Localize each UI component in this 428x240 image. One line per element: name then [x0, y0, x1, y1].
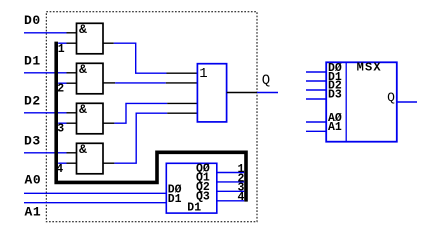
wire decoder Q0 to bus [217, 172, 244, 174]
svg-text:Q: Q [387, 90, 395, 105]
svg-text:4: 4 [56, 163, 63, 176]
svg-text:&: & [79, 102, 87, 117]
bus tap wire to U2 input2 [58, 82, 66, 84]
svg-text:&: & [79, 142, 87, 157]
pin stub AND gate U2 input2 [67, 82, 77, 84]
pin stub AND gate U4 input1 [67, 152, 77, 154]
bus tap wire to U1 input2 [58, 42, 66, 44]
pin stub AND gate U1 input2 [67, 42, 77, 44]
svg-text:A1: A1 [328, 121, 342, 134]
dashed macro boundary box [46, 12, 257, 222]
svg-text:MSX: MSX [357, 61, 382, 75]
wire decoder Q1 to bus [217, 181, 244, 183]
AND gate U4 body [77, 143, 104, 174]
AND gate U1 body [77, 23, 104, 54]
svg-text:1: 1 [58, 43, 65, 56]
decoder D1 body [166, 163, 217, 213]
pin stub OR gate input2 [166, 82, 198, 84]
MSX pin stub D1 [306, 80, 326, 82]
pin stub OR gate output [227, 92, 257, 94]
svg-text:A1: A1 [25, 204, 42, 219]
MSX pin stub D2 [306, 89, 326, 91]
AND gate U3 [77, 102, 104, 134]
AND gate U2 [77, 62, 104, 94]
wire D2 input [24, 112, 67, 114]
pin stub OR gate input1 [167, 72, 198, 74]
pin stub U4 output [103, 162, 114, 164]
MSX block U6 body [326, 62, 397, 141]
bus tap wire to U3 input2 [58, 122, 66, 124]
MSX block pin column divider [345, 62, 347, 141]
svg-text:3: 3 [57, 123, 64, 136]
pin stub U1 output [103, 42, 114, 44]
MSX pin stub D3 [306, 98, 326, 100]
wire Q output [257, 92, 278, 94]
wire D3 input [24, 152, 67, 154]
svg-text:1: 1 [199, 66, 207, 82]
pin stub U3 output [103, 122, 114, 124]
pin stub AND gate U3 input2 [67, 122, 77, 124]
svg-text:Q: Q [262, 72, 270, 88]
svg-text:D1: D1 [187, 201, 201, 214]
pin stub AND gate U3 input1 [67, 112, 77, 114]
svg-text:&: & [79, 62, 87, 77]
svg-text:D3: D3 [328, 88, 342, 101]
wire U1 output to OR input1 [114, 43, 167, 73]
OR gate U5 body [197, 64, 226, 122]
pin stub AND gate U1 input1 [67, 32, 77, 34]
wire D1 input [24, 72, 67, 74]
MSX pin stub A0 [306, 121, 326, 123]
MSX pin stub Q output [397, 101, 417, 103]
wire U4 output to OR input4 [114, 113, 167, 163]
AND gate U2 body [77, 63, 104, 94]
svg-text:4: 4 [238, 191, 245, 204]
MSX pin stub D0 [306, 71, 326, 73]
wire U2 output to OR input2 [115, 82, 166, 84]
wire decoder Q3 to bus [217, 200, 244, 202]
pin stub OR gate input4 [167, 112, 197, 114]
svg-text:&: & [79, 22, 87, 37]
svg-text:D1: D1 [24, 53, 41, 68]
AND gate U3 body [77, 103, 104, 134]
MSX pin stub A1 [306, 130, 326, 132]
wire decoder Q2 to bus [217, 190, 244, 192]
svg-text:D0: D0 [24, 13, 41, 28]
AND gate U4 [77, 142, 104, 174]
svg-text:D2: D2 [24, 94, 41, 109]
wire U3 output to OR input3 [114, 103, 167, 123]
AND gate U1 [77, 22, 104, 54]
wire A1 to decoder D1 [24, 202, 166, 204]
OR gate U5 [197, 64, 226, 122]
select bus (thick) [56, 42, 246, 202]
svg-text:2: 2 [57, 83, 64, 96]
svg-text:A0: A0 [25, 173, 42, 188]
pin stub OR gate input3 [167, 102, 197, 104]
svg-text:D1: D1 [168, 193, 182, 206]
decoder block D1 [166, 162, 217, 214]
svg-text:D3: D3 [24, 134, 41, 149]
wire D0 input [24, 32, 67, 34]
pin stub AND gate U2 input1 [67, 72, 77, 74]
bus tap wire to U4 input2 [58, 162, 66, 164]
pin stub AND gate U4 input2 [67, 162, 77, 164]
pin stub U2 output [103, 82, 115, 84]
MSX block U6 [326, 61, 397, 142]
wire A0 to decoder D0 [24, 192, 166, 194]
